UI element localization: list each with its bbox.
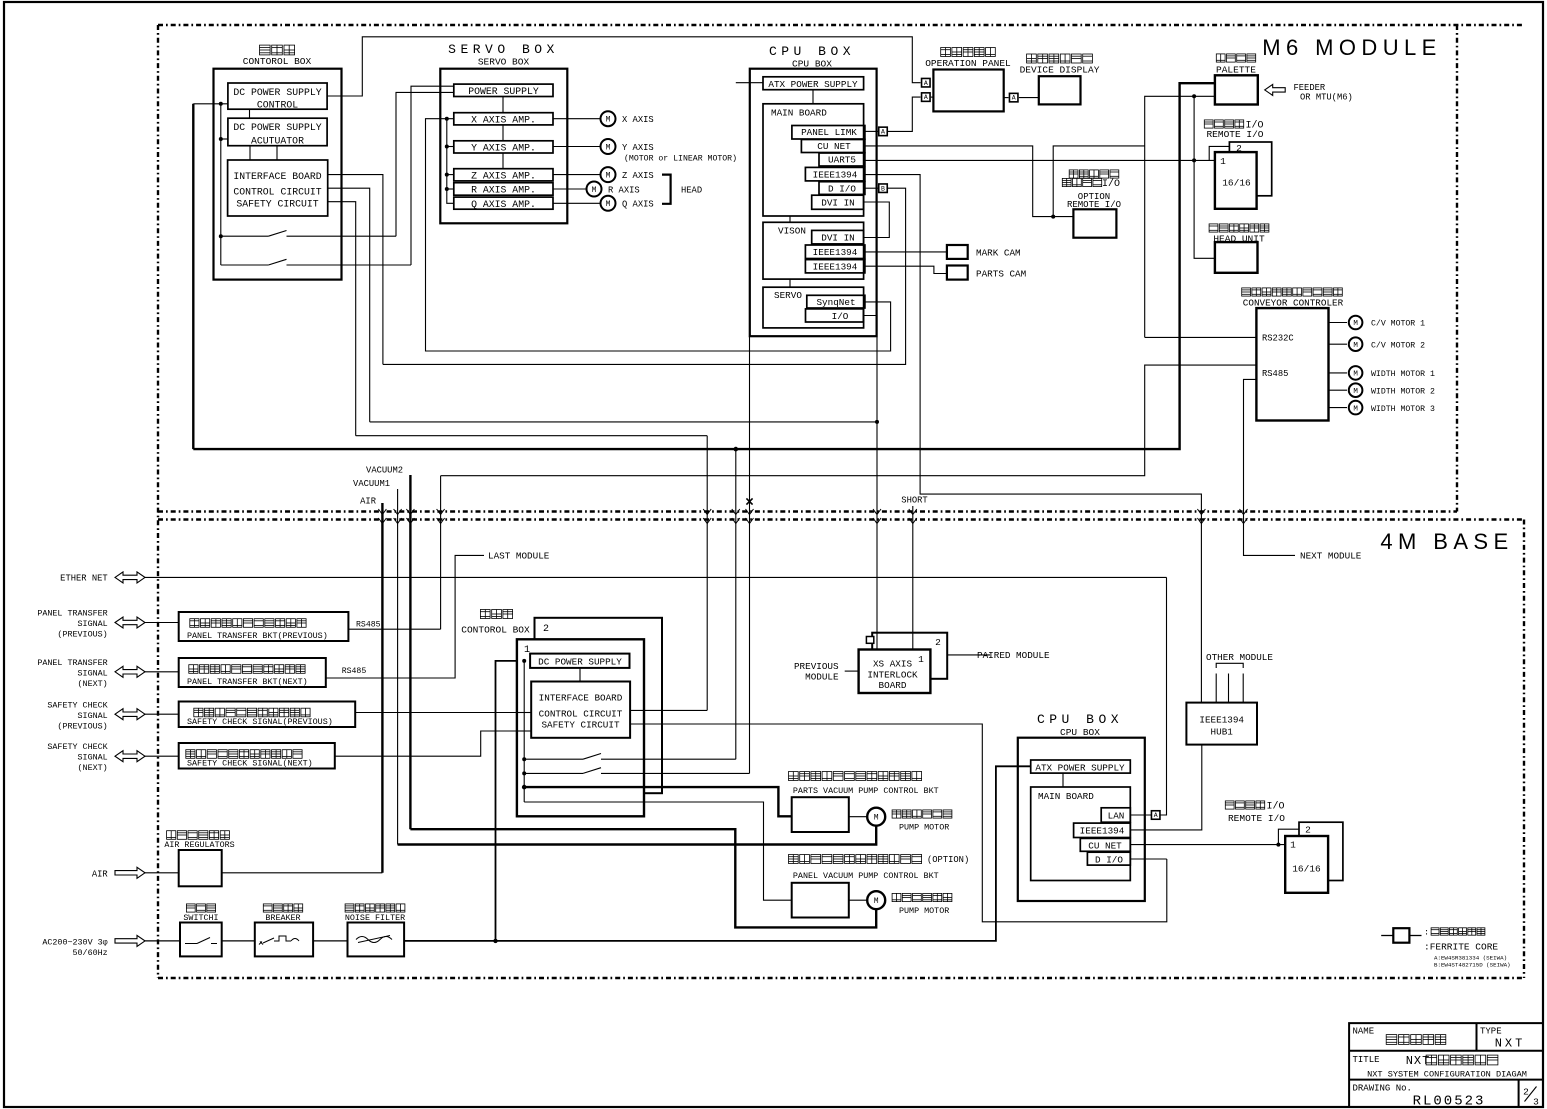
- wire dc drop 4m: [735, 449, 737, 759]
- feeder arrow: [1265, 84, 1286, 95]
- label 1 r4: [1290, 840, 1296, 851]
- label MARK CAM: [976, 248, 1021, 259]
- border break arrow: [746, 509, 754, 524]
- label DVI IN v: [821, 233, 854, 244]
- sc prev box: [179, 702, 356, 728]
- label block diagram kanji: [1386, 1035, 1446, 1045]
- svg-text:M: M: [1353, 388, 1358, 396]
- junction: [1051, 215, 1055, 219]
- box MAIN BOARD 4m: [1031, 787, 1131, 881]
- wire control-acutuator: [249, 109, 251, 118]
- svg-text:2: 2: [1523, 1087, 1529, 1098]
- wire ether net: [145, 576, 1167, 578]
- mark cam box: [947, 245, 968, 259]
- noise filter box: [348, 923, 405, 957]
- junction: [522, 659, 526, 663]
- label ferrite kanji: [1424, 928, 1485, 938]
- ferrite B dio: [879, 184, 888, 193]
- svg-text:CONTOROL BOX: CONTOROL BOX: [243, 56, 312, 67]
- svg-text:DC POWER SUPPLY: DC POWER SUPPLY: [233, 87, 321, 98]
- remote io 2 box m6: [1229, 142, 1271, 196]
- svg-text:M: M: [1353, 371, 1358, 379]
- label CU NET: [817, 141, 851, 152]
- label 1: [1220, 156, 1226, 167]
- label CPU BOX small: [792, 59, 832, 70]
- label 5060Hz: [73, 948, 108, 958]
- svg-text:IEEE1394: IEEE1394: [1080, 826, 1125, 837]
- motor Y: [601, 139, 616, 154]
- label palette kanji: [1216, 54, 1255, 62]
- wire air out: [222, 872, 383, 874]
- wire switch2 riser: [411, 86, 454, 265]
- wire vison-servo: [789, 279, 791, 287]
- junction: [522, 785, 527, 790]
- wire M6 control to XS: [370, 421, 877, 423]
- svg-text:NXT: NXT: [1406, 1054, 1431, 1068]
- label PUMP MOTOR 1: [899, 823, 949, 833]
- svg-text:A:EW4SR381334 (SEIWA): A:EW4SR381334 (SEIWA): [1434, 955, 1507, 962]
- label control box 4m kanji: [480, 610, 512, 619]
- pt prev arrow: [115, 617, 145, 628]
- label X AXIS AMP: [471, 114, 536, 125]
- region border left: [157, 25, 159, 978]
- svg-text:I/O: I/O: [832, 311, 849, 322]
- label VISON: [778, 226, 806, 237]
- label CONTOROL BOX: [243, 56, 312, 67]
- svg-text:SIGNAL: SIGNAL: [78, 669, 108, 679]
- label OPERATION PANEL: [925, 58, 1011, 69]
- label OR MTU: [1300, 93, 1353, 103]
- svg-text:2: 2: [543, 624, 549, 635]
- box DC POWER SUPPLY ACUTUATOR: [228, 118, 327, 146]
- title M6 MODULE: [1262, 35, 1441, 60]
- stub r: [447, 188, 454, 190]
- label 2: [1236, 143, 1242, 154]
- label 2 r4: [1305, 825, 1311, 836]
- svg-text:1: 1: [918, 654, 924, 665]
- title 4M BASE: [1380, 529, 1513, 554]
- svg-text:Q AXIS: Q AXIS: [622, 200, 654, 210]
- wire VACUUM2 vertical: [409, 475, 411, 829]
- svg-text:PANEL TRANSFER BKT(PREVIOUS): PANEL TRANSFER BKT(PREVIOUS): [187, 631, 328, 641]
- wire IEEE1394 long: [865, 175, 1202, 703]
- label MAIN BOARD: [771, 108, 827, 119]
- junction: [445, 117, 449, 121]
- border break arrow: [732, 509, 740, 524]
- page fraction slash: [1525, 1087, 1537, 1102]
- svg-text:POWER SUPPLY: POWER SUPPLY: [468, 86, 539, 97]
- svg-text:4M BASE: 4M BASE: [1380, 529, 1513, 554]
- label IEEE1394 hub: [1199, 715, 1244, 726]
- wire lan-ferrite: [1130, 577, 1166, 815]
- wire parts cam: [865, 266, 947, 273]
- svg-text:M: M: [606, 171, 611, 180]
- svg-text:SAFETY CHECK: SAFETY CHECK: [47, 701, 108, 711]
- wire SHORT drop: [912, 506, 914, 650]
- label PANEL TRANSFER BKT NEXT: [187, 677, 308, 687]
- svg-text:ATX POWER SUPPLY: ATX POWER SUPPLY: [768, 79, 858, 90]
- svg-text:LAN: LAN: [1108, 810, 1125, 821]
- box LAN: [1101, 808, 1130, 822]
- wire ac 1: [145, 940, 180, 942]
- parts cam box: [947, 266, 968, 280]
- svg-text:RL00523: RL00523: [1413, 1094, 1486, 1109]
- wire y motor: [553, 146, 600, 148]
- border break arrow: [406, 509, 414, 524]
- svg-text:X AXIS: X AXIS: [622, 115, 654, 125]
- wire remote 2 jog 4m: [1278, 829, 1299, 844]
- label FERRITE CORE: [1424, 942, 1498, 953]
- head unit box: [1215, 242, 1258, 273]
- title block frame: [1349, 1023, 1543, 1107]
- sc next box: [179, 743, 335, 769]
- sc prev arrow: [115, 709, 145, 720]
- wire next module: [1244, 379, 1296, 555]
- svg-text:1: 1: [1220, 156, 1226, 167]
- label DRAWING No: [1353, 1084, 1412, 1094]
- svg-text:RS485: RS485: [356, 621, 381, 630]
- M6 MODULE border right: [1456, 25, 1458, 512]
- box POWER SUPPLY: [454, 84, 553, 96]
- wire dcps-interface 4m: [579, 668, 581, 682]
- svg-text:SERVO BOX: SERVO BOX: [478, 57, 530, 68]
- junction: [875, 420, 879, 424]
- svg-text:M: M: [606, 116, 611, 125]
- box SynqNet: [807, 295, 865, 308]
- motor R: [587, 182, 602, 197]
- svg-text:A: A: [924, 80, 928, 87]
- label 1 cb: [524, 645, 530, 656]
- label NXT SYSTEM CONFIGURATION DIAGAM: [1367, 1070, 1527, 1080]
- label INTERFACE BOARD 4m: [539, 693, 623, 704]
- svg-text:I/O: I/O: [1266, 801, 1284, 813]
- label IEEE1394 v1: [813, 247, 858, 258]
- svg-text:RS485: RS485: [342, 667, 367, 676]
- no-connect X: [746, 498, 752, 504]
- svg-text:PANEL TRANSFER: PANEL TRANSFER: [37, 609, 107, 619]
- svg-text:(OPTION): (OPTION): [927, 855, 969, 865]
- box UART5: [819, 153, 865, 166]
- sc next arrow: [115, 751, 145, 762]
- title block col name/type: [1476, 1023, 1478, 1051]
- label PALETTE: [1216, 65, 1256, 76]
- svg-text:2: 2: [1305, 825, 1311, 836]
- svg-text:C/V MOTOR 2: C/V MOTOR 2: [1371, 340, 1425, 350]
- svg-text:VACUUM1: VACUUM1: [353, 479, 390, 489]
- wire width motor1: [1329, 372, 1348, 374]
- label CU NET 4m: [1088, 841, 1122, 852]
- head bracket: [662, 175, 671, 204]
- label ATX 4m: [1035, 762, 1125, 773]
- box DC POWER SUPPLY CONTROL: [228, 83, 327, 109]
- svg-text:REMOTE I/O: REMOTE I/O: [1228, 813, 1285, 824]
- wire x drop 4m: [749, 336, 751, 773]
- pt next box: [179, 658, 326, 687]
- label device display kanji: [1027, 54, 1093, 63]
- label IEEE1394 v2: [813, 262, 858, 273]
- wire op-display: [1004, 97, 1039, 99]
- label sc prev kanji: [194, 708, 310, 717]
- wire remote io 1 stub: [1194, 159, 1215, 161]
- wire interface to D I/O drop: [328, 175, 383, 365]
- border break arrow: [1240, 509, 1248, 524]
- box PANEL LINK: [792, 126, 865, 140]
- wire y-z: [502, 153, 504, 169]
- wire x-y: [502, 125, 504, 141]
- wire sc next b: [335, 731, 531, 756]
- wire ac main: [404, 766, 1031, 941]
- svg-text:Q AXIS AMP.: Q AXIS AMP.: [471, 199, 536, 210]
- label 2 cb: [543, 624, 549, 635]
- label SERVO BOX small: [478, 57, 530, 68]
- box X AXIS AMP: [454, 113, 553, 125]
- wire CU NET branch up: [1053, 146, 1145, 217]
- pt prev box: [179, 612, 349, 641]
- label MOTOR or LINEAR MOTOR: [624, 154, 737, 164]
- M6 MODULE border bottom: [158, 510, 1457, 512]
- wire sc prev a: [145, 713, 179, 715]
- label Y AXIS: [622, 143, 654, 153]
- wire sc prev overlay: [517, 712, 531, 714]
- switch contact 2: [221, 259, 411, 265]
- label DEVICE DISPLAY: [1020, 65, 1100, 76]
- label remote io 4m kanji: [1225, 801, 1284, 813]
- wire z motor: [553, 174, 600, 176]
- svg-text:NAME: NAME: [1353, 1027, 1375, 1037]
- svg-text:PUMP MOTOR: PUMP MOTOR: [899, 906, 949, 916]
- label RS485 conv: [1262, 369, 1288, 379]
- motor W3: [1349, 401, 1363, 415]
- svg-text:AIR REGULATORS: AIR REGULATORS: [164, 840, 234, 850]
- wire rs232c: [1145, 336, 1257, 338]
- svg-text:D I/O: D I/O: [1095, 854, 1123, 865]
- ferrite A op2: [922, 93, 931, 102]
- label UART5: [828, 155, 856, 166]
- title block row line 1: [1349, 1050, 1543, 1052]
- box IEEE1394 4m: [1074, 823, 1131, 837]
- label INTERLOCK: [867, 670, 918, 681]
- ferrite A panel link: [879, 127, 888, 135]
- label PANEL TRANSFER n3: [78, 679, 108, 689]
- svg-text:A: A: [924, 94, 928, 101]
- wire panel link: [865, 97, 934, 131]
- label PAIRED MODULE: [977, 650, 1050, 661]
- wire cv motor2: [1329, 343, 1348, 345]
- motor pump2: [867, 891, 885, 909]
- box CU NET: [801, 140, 865, 153]
- wire pump2 return: [410, 829, 876, 927]
- junction: [1192, 158, 1196, 162]
- label op panel kanji: [941, 48, 996, 57]
- motor CV1: [1349, 316, 1363, 330]
- svg-text:ACUTUATOR: ACUTUATOR: [251, 136, 304, 147]
- label PANEL TRANSFER n2: [78, 669, 108, 679]
- wire io drop: [863, 316, 877, 650]
- svg-text:HEAD: HEAD: [681, 185, 702, 195]
- switch box: [180, 923, 222, 957]
- wire sc next overlay: [517, 730, 531, 732]
- panel pump box: [792, 883, 849, 918]
- svg-text:M: M: [592, 186, 597, 195]
- label SAFETY CHECK p3: [57, 722, 107, 732]
- label LAN: [1108, 810, 1125, 821]
- label BREAKER: [265, 913, 300, 923]
- svg-text:C/V MOTOR 1: C/V MOTOR 1: [1371, 319, 1425, 329]
- box INTERFACE BOARD M6: [228, 160, 328, 216]
- junction: [493, 939, 497, 943]
- ferrite A display: [1009, 93, 1018, 102]
- svg-text:A: A: [881, 129, 885, 136]
- label DC POWER SUPPLY: [233, 87, 321, 98]
- svg-text:PANEL LIMK: PANEL LIMK: [801, 127, 857, 138]
- label CONTROL: [257, 100, 298, 111]
- svg-text:DVI IN: DVI IN: [821, 233, 854, 244]
- motor pump1: [867, 808, 885, 826]
- title block row line 2: [1349, 1079, 1543, 1081]
- motor W2: [1349, 383, 1363, 397]
- label SERVO BOX big: [448, 42, 559, 57]
- svg-text:NXT: NXT: [1495, 1037, 1526, 1051]
- label PANEL LINK: [801, 127, 857, 138]
- wire pump2-motor: [849, 899, 867, 901]
- label RS485 next: [342, 667, 367, 676]
- label SAFETY CHECK n1: [47, 742, 108, 752]
- border break arrow: [703, 509, 711, 524]
- svg-text:OR MTU(M6): OR MTU(M6): [1300, 93, 1353, 103]
- box SERVO: [763, 287, 864, 328]
- label PANEL TRANSFER p1: [37, 609, 107, 619]
- svg-text:IEEE1394: IEEE1394: [813, 262, 858, 273]
- M6 MODULE region border top: [158, 24, 1524, 26]
- wire main-vison: [789, 216, 791, 222]
- wire UART5 long: [865, 159, 1194, 161]
- remote 2 box 4m: [1299, 822, 1343, 880]
- hub1 box: [1186, 703, 1257, 745]
- ac arrow: [115, 935, 145, 946]
- svg-text:DC POWER SUPPLY: DC POWER SUPPLY: [233, 122, 321, 133]
- label R AXIS AMP: [471, 185, 536, 196]
- wire safety circuit drop: [328, 202, 356, 436]
- label DC POWER SUPPLY 4m: [538, 656, 622, 667]
- wire sc prev b: [355, 712, 531, 714]
- label AC200: [42, 937, 107, 947]
- wire branch vertical: [220, 104, 222, 265]
- control box M6: [214, 69, 342, 280]
- label conveyor kanji: [1242, 288, 1343, 296]
- svg-text:UART5: UART5: [828, 155, 856, 166]
- label CONVEYOR CONTROLER: [1243, 298, 1344, 309]
- pt next arrow: [115, 666, 145, 677]
- label CONTROL CIRCUIT 4m: [539, 709, 623, 720]
- svg-text:VACUUM2: VACUUM2: [366, 466, 403, 476]
- svg-text:2: 2: [1236, 143, 1242, 154]
- label SAFETY CHECK n3: [78, 763, 108, 773]
- label RS485 prev: [356, 621, 381, 630]
- label D I/O 4m: [1095, 854, 1123, 865]
- svg-text:50/60Hz: 50/60Hz: [73, 948, 108, 958]
- stub y: [447, 146, 454, 148]
- label page 2: [1523, 1087, 1529, 1098]
- junction: [445, 187, 449, 191]
- svg-text:CONTROL CIRCUIT: CONTROL CIRCUIT: [539, 709, 623, 720]
- label remote io kanji: [1062, 178, 1120, 190]
- svg-text:SAFETY CIRCUIT: SAFETY CIRCUIT: [541, 720, 620, 731]
- breaker symbol: [259, 936, 299, 945]
- svg-text:DEVICE DISPLAY: DEVICE DISPLAY: [1020, 65, 1100, 76]
- motor X: [601, 111, 616, 126]
- wire dcps left stub: [193, 103, 228, 105]
- wire AIR vertical: [381, 503, 383, 873]
- svg-text:(NEXT): (NEXT): [78, 763, 108, 773]
- svg-text:D I/O: D I/O: [828, 183, 856, 194]
- svg-text:1: 1: [1290, 840, 1296, 851]
- wire palette-headunit vertical: [1194, 96, 1215, 258]
- motor CV2: [1349, 337, 1363, 351]
- border break arrow: [909, 509, 917, 524]
- svg-text:M: M: [874, 897, 879, 906]
- motor W1: [1349, 366, 1363, 380]
- box I/O: [806, 309, 864, 322]
- wire CU NET long: [865, 146, 1074, 217]
- wire r motor: [553, 188, 586, 190]
- label pump motor2 kanji: [892, 893, 952, 901]
- wire sc next a: [145, 755, 179, 757]
- label page 3: [1533, 1097, 1539, 1108]
- box ATX POWER SUPPLY: [763, 77, 864, 90]
- junction: [522, 757, 526, 761]
- label ACUTUATOR: [251, 136, 304, 147]
- label air regulators kanji: [167, 831, 230, 840]
- wire D I/O ferrite: [383, 188, 906, 364]
- label Q AXIS: [622, 200, 654, 210]
- wire control circuit drop: [328, 188, 370, 422]
- svg-text:(NEXT): (NEXT): [78, 679, 108, 689]
- wire atx-main: [812, 90, 814, 104]
- junction: [219, 234, 223, 238]
- label C/V MOTOR 1: [1371, 319, 1425, 329]
- svg-text:MARK CAM: MARK CAM: [976, 248, 1021, 259]
- wire width motor3: [1329, 407, 1348, 409]
- label R AXIS: [608, 185, 640, 195]
- wire dcps riser 4m: [496, 661, 531, 941]
- svg-text:PUMP MOTOR: PUMP MOTOR: [899, 823, 949, 833]
- switch 4m row2: [524, 768, 749, 774]
- label X AXIS: [622, 115, 654, 125]
- wire ieee hub down: [1130, 745, 1202, 830]
- box VISON: [763, 222, 864, 279]
- svg-text:X AXIS AMP.: X AXIS AMP.: [471, 114, 536, 125]
- svg-text:Z AXIS AMP.: Z AXIS AMP.: [471, 170, 536, 181]
- wire last module: [326, 555, 484, 678]
- wire ac 2: [222, 940, 255, 942]
- svg-text:SHORT: SHORT: [901, 496, 927, 506]
- remote 1 box 4m: [1285, 836, 1328, 893]
- wire mark cam: [865, 251, 947, 253]
- svg-text::: :: [1424, 928, 1429, 938]
- box IEEE1394 v1: [805, 245, 865, 259]
- switch contact 1: [221, 231, 396, 237]
- label pump motor1 kanji: [892, 810, 952, 818]
- svg-text:CONTROL CIRCUIT: CONTROL CIRCUIT: [233, 187, 321, 198]
- motor Q: [601, 196, 616, 211]
- wire atx feed: [736, 82, 763, 84]
- svg-text:3: 3: [1533, 1097, 1539, 1108]
- svg-text:AIR: AIR: [360, 496, 377, 506]
- wire cu net 4m: [1130, 844, 1285, 846]
- device display box: [1039, 76, 1081, 104]
- label pt prev kanji: [190, 619, 306, 628]
- box MAIN BOARD: [763, 104, 864, 216]
